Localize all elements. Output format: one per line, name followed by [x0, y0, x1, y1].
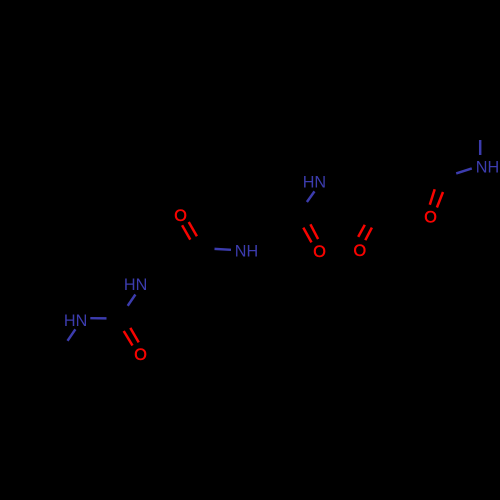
- svg-text:O: O: [134, 346, 147, 364]
- double bond C3=O3 (center-right ketone carbonyl): [358, 225, 372, 240]
- double bond C2=O2 (center-left amide carbonyl): [303, 224, 318, 242]
- double bond C5=O5 (urea carbonyl): [124, 328, 139, 346]
- bond N4-C5 (stub from HN down-left to urea carbon): [128, 295, 136, 306]
- bond C4-N3 (stub to NH center-left): [215, 248, 232, 251]
- svg-text:HN: HN: [64, 312, 87, 330]
- svg-text:HN: HN: [124, 276, 147, 294]
- svg-text:NH: NH: [476, 159, 499, 177]
- double bond C1=O1 (top right carbonyl): [430, 189, 443, 207]
- svg-text:O: O: [354, 242, 367, 260]
- svg-text:NH: NH: [235, 242, 258, 260]
- bond N5-C5 (horizontal stub to urea carbon): [90, 317, 106, 320]
- bond N2-C2 (stub from middle HN down-left): [307, 191, 315, 202]
- svg-text:HN: HN: [303, 174, 326, 192]
- svg-text:O: O: [174, 207, 187, 225]
- svg-text:O: O: [424, 208, 437, 226]
- double bond C4=O4 (left amide carbonyl): [182, 222, 197, 240]
- svg-text:O: O: [313, 243, 326, 261]
- bond N5-CH3 (stub down-left to methyl): [68, 329, 76, 341]
- bond C1-N1 (amide stub to NH): [456, 168, 472, 173]
- bond N1-CH3 (methyl stub, top right): [479, 140, 481, 155]
